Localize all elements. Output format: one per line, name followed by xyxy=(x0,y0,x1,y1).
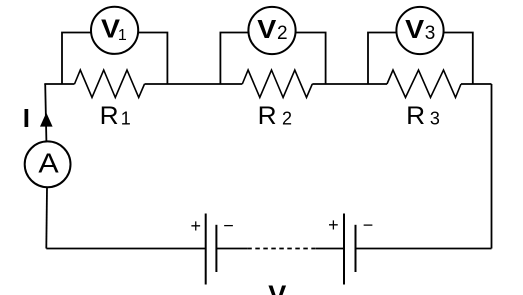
wire: bottom left segment to battery xyxy=(46,248,205,250)
wire: segment between R2 and R3 xyxy=(312,83,387,85)
voltmeter V2 xyxy=(248,7,295,54)
label + (cell 1) xyxy=(191,216,202,236)
wire: R1 left lead from node A to resistor xyxy=(44,83,74,85)
svg-text:R: R xyxy=(406,102,425,130)
svg-text:2: 2 xyxy=(282,108,292,128)
label V (battery voltage) xyxy=(268,280,286,295)
svg-text:V: V xyxy=(268,280,286,295)
wire: cell 2 to bottom-right corner xyxy=(356,248,492,250)
svg-text:3: 3 xyxy=(430,108,440,128)
resistor R1 xyxy=(75,70,145,98)
svg-text:−: − xyxy=(223,216,234,236)
battery cell 1 positive plate xyxy=(205,214,207,285)
svg-text:2: 2 xyxy=(277,23,288,44)
label R2 xyxy=(258,102,292,130)
svg-text:+: + xyxy=(328,215,339,235)
resistor R3 xyxy=(387,70,461,98)
wire: node A junction down to ammeter xyxy=(45,84,46,141)
wire: right side vertical xyxy=(491,84,493,249)
svg-text:I: I xyxy=(23,103,30,133)
wire: V2 parallel branch xyxy=(220,33,325,85)
wire: R3 right lead to top-right corner xyxy=(461,83,492,85)
ammeter A xyxy=(25,141,71,187)
voltmeter V1 xyxy=(91,7,138,54)
battery cell 1 negative plate xyxy=(215,225,217,272)
svg-text:A: A xyxy=(38,147,59,178)
svg-text:+: + xyxy=(191,216,202,236)
wire: V1 parallel branch (left vertical, top stubs, right vertical) xyxy=(62,33,167,85)
wire: cell 1 to dashed section xyxy=(216,248,247,250)
svg-text:V: V xyxy=(405,14,425,44)
label R3 xyxy=(406,102,440,130)
battery cell 2 positive plate xyxy=(343,214,345,285)
battery cell 2 negative plate xyxy=(355,225,357,272)
resistor R2 xyxy=(242,70,312,98)
svg-text:−: − xyxy=(363,215,374,235)
label R1 xyxy=(100,102,131,130)
wire: segment between R1 and R2 xyxy=(145,83,243,85)
current direction arrow xyxy=(40,113,53,127)
svg-text:1: 1 xyxy=(121,108,131,128)
svg-text:3: 3 xyxy=(425,23,436,44)
wire: ammeter down to bottom-left corner xyxy=(45,188,48,249)
label &#8722; (cell 2) xyxy=(363,215,374,235)
svg-text:V: V xyxy=(257,14,277,44)
svg-text:R: R xyxy=(258,102,277,130)
svg-text:1: 1 xyxy=(118,27,127,44)
wire: V3 parallel branch xyxy=(368,33,473,85)
label &#8722; (cell 1) xyxy=(223,216,234,236)
label + (cell 2) xyxy=(328,215,339,235)
label I (current) xyxy=(23,103,30,133)
svg-text:R: R xyxy=(100,102,119,130)
wire: dashed section (omitted cells) xyxy=(247,248,316,250)
wire: dashed section to cell 2 xyxy=(316,248,344,250)
voltmeter V3 xyxy=(396,7,443,54)
